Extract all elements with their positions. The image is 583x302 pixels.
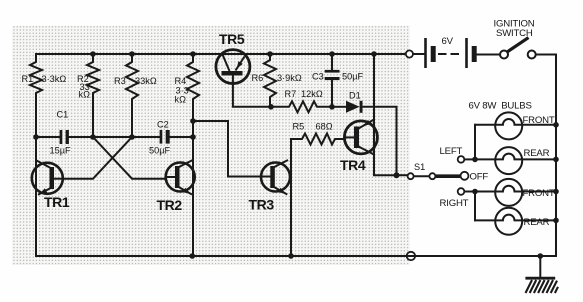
svg-text:68Ω: 68Ω — [316, 122, 333, 132]
svg-text:REAR: REAR — [524, 148, 550, 159]
svg-text:6V: 6V — [442, 36, 454, 47]
svg-text:C2: C2 — [157, 120, 169, 130]
svg-text:R4: R4 — [175, 76, 187, 86]
svg-text:TR2: TR2 — [157, 197, 183, 213]
svg-text:C3: C3 — [312, 72, 324, 82]
svg-text:15µF: 15µF — [50, 146, 72, 156]
svg-text:R7: R7 — [285, 89, 297, 99]
svg-text:12kΩ: 12kΩ — [301, 89, 323, 99]
svg-text:OFF: OFF — [470, 172, 489, 183]
svg-text:33kΩ: 33kΩ — [135, 76, 157, 86]
svg-text:RIGHT: RIGHT — [440, 198, 469, 209]
svg-text:TR5: TR5 — [219, 31, 245, 47]
svg-text:3·3kΩ: 3·3kΩ — [42, 74, 67, 84]
svg-text:TR3: TR3 — [249, 197, 275, 213]
svg-text:3·9kΩ: 3·9kΩ — [277, 73, 302, 83]
svg-text:R1: R1 — [22, 74, 34, 84]
svg-text:50µF: 50µF — [342, 72, 364, 82]
svg-text:TR4: TR4 — [340, 157, 366, 173]
svg-text:kΩ: kΩ — [79, 90, 91, 100]
svg-text:kΩ: kΩ — [175, 95, 187, 105]
svg-text:TR1: TR1 — [44, 194, 70, 210]
svg-text:6V 8W BULBS: 6V 8W BULBS — [469, 101, 532, 112]
svg-text:SWITCH: SWITCH — [496, 28, 533, 39]
svg-text:R5: R5 — [293, 122, 305, 132]
svg-text:D1: D1 — [349, 91, 361, 101]
svg-text:FRONT: FRONT — [523, 188, 555, 199]
svg-text:S1: S1 — [414, 162, 425, 172]
svg-text:R6: R6 — [252, 73, 264, 83]
svg-text:REAR: REAR — [524, 217, 550, 228]
svg-text:LEFT: LEFT — [440, 146, 463, 157]
svg-text:R3: R3 — [114, 76, 126, 86]
svg-text:FRONT: FRONT — [523, 115, 555, 126]
svg-text:50µF: 50µF — [149, 146, 171, 156]
svg-text:C1: C1 — [57, 110, 69, 120]
